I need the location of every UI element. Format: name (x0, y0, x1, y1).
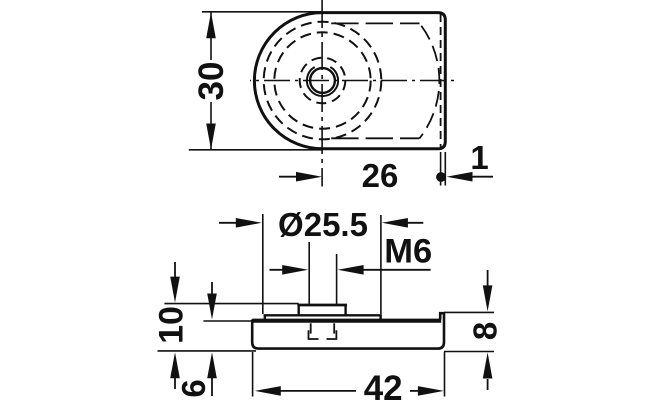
hidden thread hole dash left minor (310, 323, 312, 333)
M6 hole circle (310, 68, 335, 93)
hidden circle boss Ø25.5 (264, 22, 382, 140)
dimension 30 line (210, 12, 212, 60)
svg-text:Ø25.5: Ø25.5 (278, 206, 368, 243)
hidden thread hole dash right minor (333, 323, 335, 333)
svg-text:42: 42 (364, 369, 403, 400)
svg-text:6: 6 (175, 379, 212, 397)
vertical centerline (321, 0, 323, 187)
dimension M6 extension right (336, 254, 338, 304)
collar right edge (344, 305, 346, 315)
dimension 30 extension line top (202, 11, 322, 13)
dimension 30 extension line bottom (189, 149, 322, 151)
boss Ø25.5 left edge (264, 315, 266, 320)
dimension 8 extension top (444, 311, 494, 313)
hidden circle collar (300, 58, 346, 104)
svg-text:M6: M6 (384, 232, 432, 270)
dimension D25.5 arrow right (402, 222, 423, 224)
hidden slot contour bottom line (331, 137, 419, 139)
dimension 26 arrow left (279, 176, 300, 178)
hidden slot contour right arc (420, 23, 440, 138)
svg-text:26: 26 (362, 157, 399, 194)
shared bottom extension line (158, 350, 257, 352)
hidden thread hole corner left (309, 330, 319, 339)
dimension 26/1 extension line b (444, 152, 446, 186)
M6 thread major arc (307, 67, 338, 96)
svg-text:30: 30 (192, 62, 231, 101)
dimension 10 arrow up (174, 375, 176, 389)
hidden thread hole corner right (327, 330, 337, 339)
hidden lip line (1 mm from right edge) (440, 14, 442, 148)
side view plate outline (252, 313, 444, 348)
dimension 26 dot (436, 172, 446, 182)
boss Ø25.5 right edge (379, 315, 381, 320)
hidden slot contour top line (331, 22, 419, 24)
dimension D25.5 extension left (262, 214, 264, 314)
dimension 30 arrowhead down (206, 124, 216, 150)
dimension D25.5 extension right (380, 215, 382, 314)
dimension 10 extension line (164, 303, 298, 305)
horizontal centerline (250, 80, 459, 82)
dimension 42 extension left (252, 352, 254, 397)
boss Ø25.5 top (264, 314, 382, 316)
dimension 42 extension right (444, 352, 446, 397)
dimension 6 arrow down (211, 282, 213, 297)
dimension 8 arrow up (487, 379, 489, 390)
dimension 42 line right with arrow (410, 390, 420, 392)
dimension 8 extension bottom (444, 351, 494, 353)
dimension 1 arrow (470, 176, 493, 178)
svg-text:8: 8 (466, 322, 503, 340)
top view part outline (D-shape plate) (254, 13, 445, 149)
svg-text:1: 1 (470, 139, 488, 176)
svg-text:10: 10 (153, 306, 191, 344)
dimension M6 arrow left (270, 269, 288, 271)
dimension 42 line left with arrow (278, 390, 356, 392)
side view plate top surface (thick) (252, 319, 441, 323)
dimension 10 arrow down (174, 262, 176, 280)
collar top (297, 304, 347, 307)
dimension 8 arrow down (487, 270, 489, 289)
dimension M6 arrow right (358, 269, 431, 271)
dimension 26/1 extension line a (440, 152, 442, 186)
dimension 30 arrowhead up (206, 12, 216, 38)
collar left edge (298, 305, 300, 315)
dimension 6 arrow up (211, 378, 213, 396)
dimension M6 extension left (308, 242, 310, 304)
dimension 6 extension line (203, 320, 253, 322)
hidden circle washer (274, 32, 370, 128)
dimension D25.5 arrow left (219, 222, 240, 224)
